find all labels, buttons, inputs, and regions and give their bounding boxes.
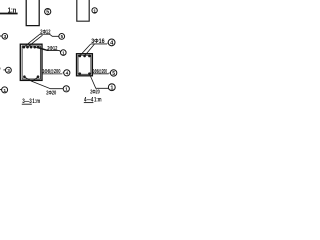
section 3-3 bottom bars (dots): [23, 75, 39, 78]
bar mark circle 1 (elevation 2): [92, 8, 97, 15]
leader dash at left edge (mark 3 upper): [0, 35, 2, 37]
column elevation 2 outline: [77, 0, 89, 21]
section 3-3 stirrup: [22, 46, 40, 79]
leader to label 2phi20 (section 3-3): [32, 81, 63, 88]
leader lines to label 2phi12 upper: [24, 34, 43, 47]
section 3-3 top bars (dots): [23, 46, 40, 49]
svg-text:1:m: 1:m: [32, 98, 40, 105]
title 4-4 underline: [84, 102, 94, 104]
svg-text:3: 3: [4, 34, 7, 39]
section 4-4 stirrup: [78, 55, 91, 74]
bar mark circle 1 (bottom bars 3-3): [63, 86, 69, 93]
bar mark circle 1 (bottom left): [2, 87, 8, 94]
svg-text:5: 5: [46, 10, 49, 16]
svg-text:1: 1: [93, 8, 96, 14]
section 4-4 bottom bars (dots): [79, 72, 91, 75]
svg-text:1: 1: [3, 88, 6, 94]
svg-text:1: 1: [110, 85, 113, 91]
bar mark circle 4 (stirrup 3-3): [64, 70, 70, 77]
stirrup label underline: [42, 73, 64, 74]
svg-text:2Φ20: 2Φ20: [90, 90, 100, 96]
section 4-4 outer outline: [77, 54, 93, 76]
leader dash (mark 3 mid-left): [3, 69, 5, 71]
bar mark circle 1 (label lower): [61, 50, 67, 56]
svg-text:1:m: 1:m: [94, 97, 102, 104]
bar mark circle 5 (label upper): [59, 34, 65, 40]
svg-text:4: 4: [66, 71, 69, 77]
svg-text:00: 00: [0, 66, 1, 71]
title 3-3 underline: [22, 103, 32, 105]
leader lines to label 3phi16: [80, 44, 95, 56]
section 4-4 top bars (dots): [79, 55, 91, 58]
leader to label 2phi20 (section 4-4): [90, 74, 109, 88]
svg-text:2Φ20: 2Φ20: [46, 90, 56, 96]
svg-text:5: 5: [112, 71, 115, 77]
bar mark circle 1 (bottom bars 4-4): [108, 84, 115, 92]
label underline and leader to circle 1: [47, 51, 61, 52]
bar mark circle 4 (top bars 4-4): [108, 39, 115, 47]
column elevation 1 outline: [26, 0, 39, 26]
leader V from bottom bars: [24, 77, 38, 81]
leader dash at left edge (mark 1 lower): [0, 89, 2, 91]
label underline and dash to circle 4: [91, 42, 108, 45]
label underline and leader to circle 5: [40, 34, 59, 36]
bar mark circle 5 (stirrup 4-4): [110, 70, 116, 77]
bar mark circle 3 (left upper): [2, 34, 8, 40]
section 3-3 outer outline: [20, 44, 42, 80]
stirrup label underline: [93, 72, 111, 75]
title underline (top left): [0, 13, 18, 15]
svg-text:1: 1: [65, 87, 68, 93]
svg-text:3: 3: [7, 68, 10, 73]
leader lines to label 2phi12 lower: [35, 47, 49, 50]
bar mark circle 5 (elevation 1): [45, 9, 51, 16]
bar mark circle 3 (mid left): [5, 67, 11, 73]
